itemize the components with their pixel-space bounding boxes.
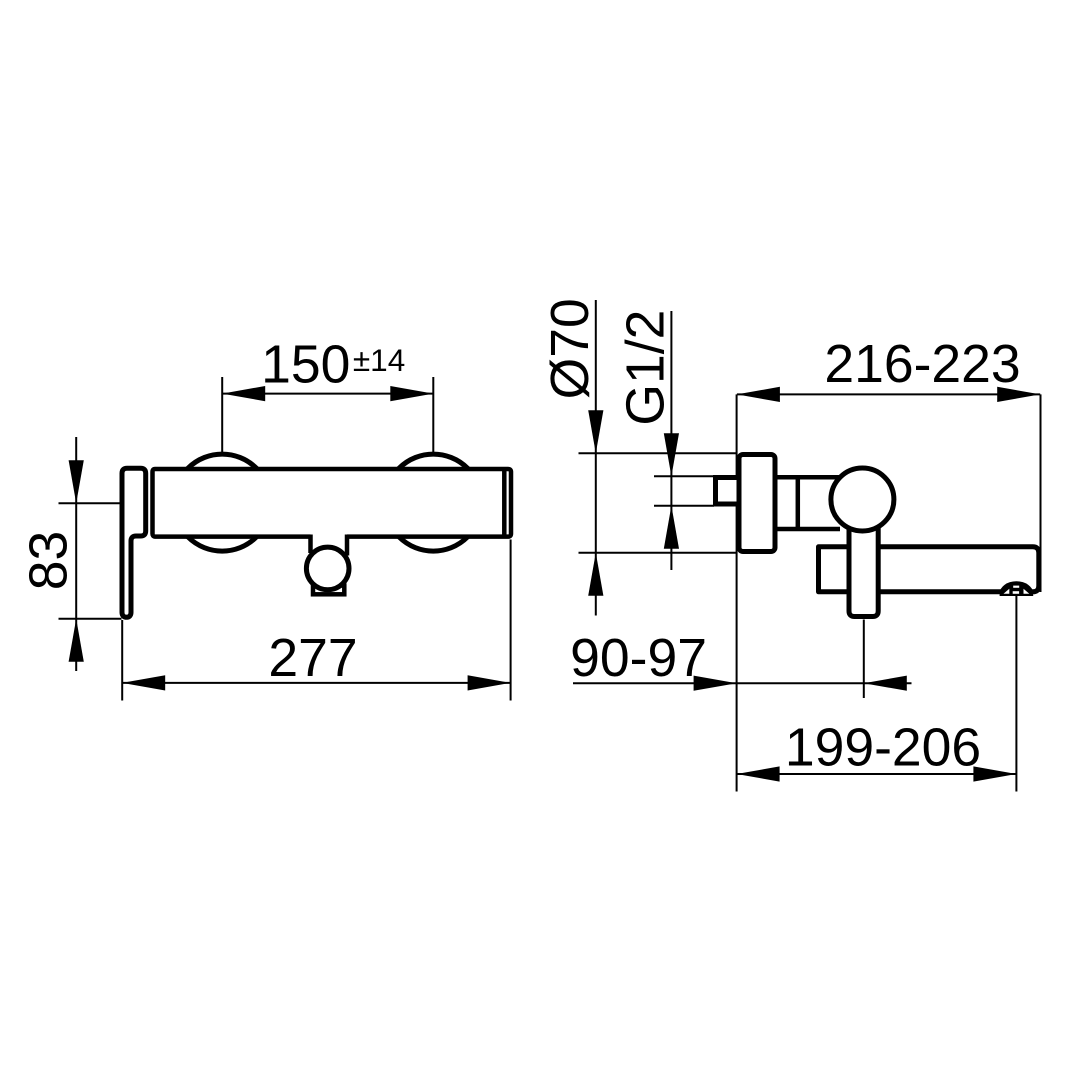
aerator outlet [1000,581,1034,596]
dim 199-206: dimension line [737,773,1017,775]
dim G1/2: extension lines [654,475,714,477]
dim Ø70: extension lines [579,452,738,454]
svg-text:Ø70: Ø70 [541,298,600,399]
dim 277: right arrow [468,675,511,690]
mixer bar body [153,469,512,537]
dim 150: left arrow [222,386,265,401]
body circle [831,468,894,531]
connection pipe [776,477,840,529]
svg-text:G1/2: G1/2 [617,310,676,426]
svg-text:277: 277 [268,629,357,688]
dim 199-206: outlet extension [1015,596,1017,792]
svg-text:83: 83 [20,531,79,591]
svg-text:±14: ±14 [353,342,405,378]
dim 216-223: dimension line [737,393,1040,395]
dim G1/2: dimension line [670,311,672,570]
dim 83: top arrow [69,460,84,503]
dim 277: extension lines [121,620,123,701]
escutcheon circle right [385,454,482,551]
dim 216-223: left arrow [737,387,780,402]
dim G1/2: top arrow [664,433,679,476]
dim 90-97: wall arrow [694,676,737,691]
dim 150: right arrow [390,386,433,401]
dim 83: dimension line [75,437,77,671]
diverter cutout walls [308,535,313,554]
svg-text:216-223: 216-223 [824,335,1020,394]
dim G1/2: bottom arrow [664,506,679,549]
dim 216-223: spout tip extension [1040,394,1042,592]
dim 199-206: right arrow [973,766,1016,781]
dim Ø70: dimension line [595,300,597,616]
svg-text:90-97: 90-97 [570,629,707,688]
dim 83: bottom arrow [69,619,84,662]
diverter knob circle [306,547,349,590]
dim Ø70: bottom arrow [588,553,603,596]
dim 83: extension lines [59,502,122,504]
wall escutcheon [739,455,775,552]
dim 90-97: handle arrow [864,676,907,691]
dim 199-206: left arrow [737,766,780,781]
dim 150: dimension line [222,393,433,395]
escutcheon circle left [174,454,271,551]
dim 90-97: handle centre extension [863,620,865,699]
dim 216-223: right arrow [997,387,1040,402]
dim Ø70: top arrow [588,410,603,453]
dim 277: left arrow [122,675,165,690]
svg-text:199-206: 199-206 [785,718,981,777]
spout tube [819,547,1039,592]
svg-text:150: 150 [261,335,350,394]
lever handle front view [122,468,146,617]
diverter outlet box [313,586,344,595]
dim 90-97: dimension line [573,682,912,684]
bar right end seam [502,469,507,537]
G1/2 nipple [716,478,740,505]
wall extension line [736,394,738,791]
dim 150: extension lines [221,377,223,453]
handle lever side view [849,520,878,617]
dim 277: dimension line [122,682,510,684]
